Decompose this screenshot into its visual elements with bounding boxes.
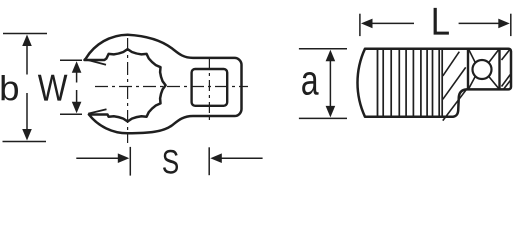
label a [302, 72, 318, 95]
dimension L [359, 14, 361, 36]
centerline horizontal [95, 86, 248, 88]
right strip hatch diagonals [502, 49, 511, 89]
dimension b [3, 33, 47, 35]
serration lines [383, 50, 442, 116]
centerline vertical square [208, 58, 210, 121]
drive hole circle [473, 60, 492, 79]
side view chamfer line [377, 50, 379, 116]
dimension W [60, 59, 82, 61]
label S [163, 150, 178, 174]
wrench head outline [85, 35, 242, 134]
label L [434, 8, 449, 35]
drive block verticals [467, 49, 469, 90]
block corner diagonals [469, 50, 499, 89]
jaw chamfer lower [88, 109, 106, 113]
jaw chamfer upper [87, 60, 106, 65]
centerline vertical ring [127, 38, 129, 143]
dimension S [76, 157, 118, 159]
side view outline [357, 49, 511, 117]
section hatch diagonals [443, 52, 467, 121]
square drive hole [192, 69, 228, 106]
label W [38, 75, 68, 101]
label b [2, 75, 19, 101]
dimension a [299, 48, 347, 50]
